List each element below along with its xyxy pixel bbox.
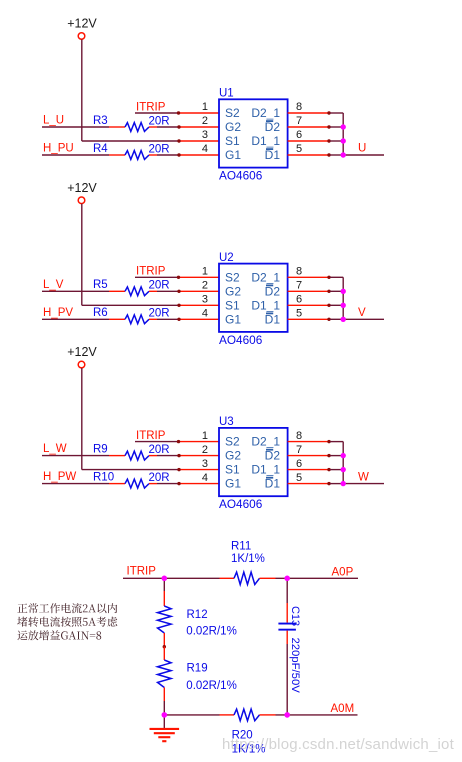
- svg-text:L_U: L_U: [43, 115, 64, 127]
- svg-text:7: 7: [296, 115, 302, 127]
- svg-text:V: V: [358, 307, 366, 319]
- svg-text:U2: U2: [219, 252, 234, 264]
- svg-text:C13: C13: [289, 606, 301, 626]
- svg-text:3: 3: [202, 294, 208, 306]
- svg-text:D2_1: D2_1: [251, 106, 280, 120]
- svg-text:H_PU: H_PU: [43, 143, 74, 155]
- svg-text:G2: G2: [225, 120, 241, 134]
- svg-text:D1_1: D1_1: [251, 298, 280, 312]
- svg-text:S2: S2: [225, 435, 240, 449]
- svg-text:+12V: +12V: [67, 181, 97, 195]
- svg-text:2: 2: [202, 280, 208, 292]
- svg-text:U1: U1: [219, 88, 234, 100]
- svg-text:2: 2: [202, 115, 208, 127]
- svg-text:0.02R/1%: 0.02R/1%: [186, 626, 237, 638]
- svg-text:ITRIP: ITRIP: [136, 101, 166, 113]
- svg-text:+12V: +12V: [67, 345, 97, 359]
- svg-text:R5: R5: [93, 279, 108, 291]
- svg-text:D2_1: D2_1: [251, 435, 280, 449]
- svg-text:6: 6: [296, 458, 302, 470]
- svg-text:G1: G1: [225, 148, 241, 162]
- svg-text:20R: 20R: [149, 115, 170, 127]
- svg-text:G1: G1: [225, 477, 241, 491]
- svg-text:8: 8: [296, 430, 302, 442]
- svg-text:R19: R19: [187, 663, 208, 675]
- svg-text:L_W: L_W: [43, 443, 67, 455]
- svg-text:5: 5: [296, 143, 302, 155]
- svg-text:AO4606: AO4606: [219, 333, 263, 347]
- svg-text:R6: R6: [93, 307, 108, 319]
- svg-text:G2: G2: [225, 284, 241, 298]
- svg-text:ITRIP: ITRIP: [127, 565, 157, 577]
- svg-text:H_PW: H_PW: [43, 471, 76, 483]
- svg-text:1: 1: [202, 101, 208, 113]
- svg-text:R9: R9: [93, 443, 108, 455]
- svg-text:A0P: A0P: [332, 566, 354, 578]
- svg-text:3: 3: [202, 458, 208, 470]
- svg-text:D1_1: D1_1: [251, 134, 280, 148]
- svg-text:6: 6: [296, 129, 302, 141]
- svg-text:8: 8: [296, 101, 302, 113]
- svg-text:8: 8: [296, 266, 302, 278]
- svg-text:U: U: [358, 143, 366, 155]
- svg-text:7: 7: [296, 280, 302, 292]
- svg-text:4: 4: [202, 472, 208, 484]
- svg-text:https://blog.csdn.net/sandwich: https://blog.csdn.net/sandwich_iot: [222, 736, 455, 753]
- svg-text:H_PV: H_PV: [43, 307, 73, 319]
- svg-text:20R: 20R: [149, 143, 170, 155]
- svg-text:R3: R3: [93, 115, 108, 127]
- svg-text:5: 5: [296, 472, 302, 484]
- svg-text:1: 1: [202, 430, 208, 442]
- svg-text:S1: S1: [225, 463, 240, 477]
- svg-text:L_V: L_V: [43, 279, 64, 291]
- svg-text:R10: R10: [93, 471, 114, 483]
- svg-text:7: 7: [296, 444, 302, 456]
- svg-text:5: 5: [296, 308, 302, 320]
- svg-text:S2: S2: [225, 106, 240, 120]
- svg-text:3: 3: [202, 129, 208, 141]
- svg-text:D1: D1: [265, 312, 281, 326]
- svg-text:S2: S2: [225, 270, 240, 284]
- svg-text:D1: D1: [265, 477, 281, 491]
- svg-text:W: W: [358, 471, 369, 483]
- svg-text:2: 2: [202, 444, 208, 456]
- svg-text:ITRIP: ITRIP: [136, 266, 166, 278]
- svg-text:AO4606: AO4606: [219, 497, 263, 511]
- svg-text:20R: 20R: [149, 472, 170, 484]
- svg-text:D2: D2: [265, 449, 281, 463]
- svg-text:ITRIP: ITRIP: [136, 430, 166, 442]
- svg-text:220pF/50V: 220pF/50V: [289, 638, 301, 694]
- svg-text:D2: D2: [265, 284, 281, 298]
- svg-text:+12V: +12V: [67, 17, 97, 31]
- svg-text:4: 4: [202, 143, 208, 155]
- svg-text:1K/1%: 1K/1%: [231, 553, 265, 565]
- svg-text:0.02R/1%: 0.02R/1%: [186, 680, 237, 692]
- svg-text:D1: D1: [265, 148, 281, 162]
- svg-text:20R: 20R: [149, 308, 170, 320]
- svg-text:20R: 20R: [149, 280, 170, 292]
- svg-text:D1_1: D1_1: [251, 463, 280, 477]
- svg-text:G1: G1: [225, 312, 241, 326]
- svg-text:AO4606: AO4606: [219, 169, 263, 183]
- svg-text:R4: R4: [93, 143, 108, 155]
- svg-text:20R: 20R: [149, 444, 170, 456]
- svg-text:6: 6: [296, 294, 302, 306]
- svg-text:D2_1: D2_1: [251, 270, 280, 284]
- svg-text:A0M: A0M: [331, 703, 355, 715]
- svg-text:S1: S1: [225, 298, 240, 312]
- svg-text:1: 1: [202, 266, 208, 278]
- svg-text:R11: R11: [231, 540, 251, 552]
- svg-text:G2: G2: [225, 449, 241, 463]
- svg-text:U3: U3: [219, 416, 234, 428]
- svg-text:R12: R12: [187, 609, 208, 621]
- svg-text:D2: D2: [265, 120, 281, 134]
- svg-text:4: 4: [202, 308, 208, 320]
- svg-text:S1: S1: [225, 134, 240, 148]
